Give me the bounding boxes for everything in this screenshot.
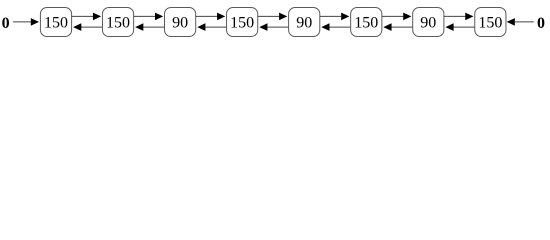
doubly linked list diagram (0, 0, 550, 44)
next-pointer wire N4-to-N5 (258, 15, 280, 17)
prev-pointer wire N2-to-N1 (81, 26, 103, 28)
arrowhead prev N2-to-N1 (73, 23, 81, 31)
next-pointer wire N2-to-N3 (134, 15, 156, 17)
wire tail-to-node8 (515, 21, 534, 23)
svg-text:90: 90 (172, 14, 188, 31)
svg-text:150: 150 (230, 14, 254, 31)
svg-text:0: 0 (537, 15, 545, 32)
arrowhead head-to-node1 (31, 18, 39, 26)
arrowhead next N2-to-N3 (155, 13, 163, 21)
prev-pointer wire N7-to-N6 (391, 26, 413, 28)
prev-pointer wire N8-to-N7 (453, 26, 475, 28)
arrowhead prev N7-to-N6 (383, 23, 391, 31)
next-pointer wire N3-to-N4 (196, 15, 218, 17)
svg-text:150: 150 (354, 14, 378, 31)
prev-pointer wire N4-to-N3 (205, 26, 227, 28)
node N5 box (289, 8, 320, 37)
arrowhead prev N3-to-N2 (135, 23, 143, 31)
arrowhead prev N6-to-N5 (321, 23, 329, 31)
svg-text:150: 150 (478, 14, 502, 31)
node N2 box (102, 8, 133, 37)
node N7 box (413, 8, 444, 37)
svg-text:150: 150 (106, 14, 130, 31)
arrowhead prev N4-to-N3 (197, 23, 205, 31)
wire head-to-node1 (13, 21, 32, 23)
arrowhead next N6-to-N7 (403, 13, 411, 21)
next-pointer wire N5-to-N6 (320, 15, 342, 17)
node N4 box (227, 8, 258, 37)
node N8 box (475, 8, 506, 37)
arrowhead prev N8-to-N7 (445, 23, 453, 31)
arrowhead next N3-to-N4 (217, 13, 225, 21)
prev-pointer wire N3-to-N2 (143, 26, 165, 28)
arrowhead next N1-to-N2 (93, 13, 101, 21)
node N3 box (165, 8, 196, 37)
arrowhead next N4-to-N5 (279, 13, 287, 21)
svg-text:0: 0 (2, 15, 10, 32)
arrowhead tail-to-node8 (507, 18, 515, 26)
next-pointer wire N1-to-N2 (72, 15, 94, 17)
next-pointer wire N6-to-N7 (382, 15, 404, 17)
node N6 box (351, 8, 382, 37)
arrowhead next N7-to-N8 (465, 13, 473, 21)
svg-text:90: 90 (420, 14, 436, 31)
svg-text:90: 90 (296, 14, 312, 31)
node N1 box (40, 8, 71, 37)
prev-pointer wire N6-to-N5 (329, 26, 351, 28)
svg-text:150: 150 (44, 14, 68, 31)
arrowhead prev N5-to-N4 (259, 23, 267, 31)
arrowhead next N5-to-N6 (341, 13, 349, 21)
next-pointer wire N7-to-N8 (444, 15, 466, 17)
prev-pointer wire N5-to-N4 (267, 26, 289, 28)
